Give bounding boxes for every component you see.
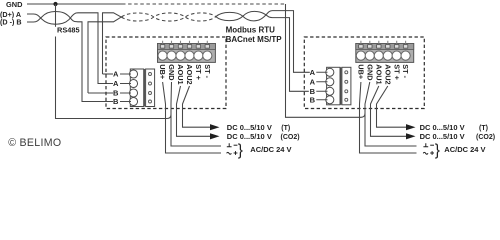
wire AOU1 to CO2 out right <box>371 86 407 136</box>
svg-text:AOU1: AOU1 <box>374 64 383 84</box>
svg-text:AOU2: AOU2 <box>383 64 392 84</box>
device 2 terminal block A A B B <box>316 67 351 105</box>
wire B out of device 1 <box>88 16 123 93</box>
svg-text:(T): (T) <box>479 125 488 132</box>
svg-text:(D -) B: (D -) B <box>0 18 22 27</box>
svg-text:DC 0...5/10 V: DC 0...5/10 V <box>227 132 272 141</box>
wire twisted pair solid lenses right upper <box>216 11 309 91</box>
svg-text:Modbus RTU: Modbus RTU <box>226 26 276 35</box>
svg-text:ST +: ST + <box>392 64 401 80</box>
svg-text:AOU2: AOU2 <box>185 64 194 84</box>
svg-text:GND: GND <box>365 64 374 80</box>
device 2 connector strip <box>356 41 414 63</box>
wire GND drop right device <box>286 4 366 117</box>
wire shield drop lower to GND rail <box>56 37 172 119</box>
wire GND to 24V <box>171 82 221 146</box>
svg-text:A: A <box>113 70 119 79</box>
svg-text:(T): (T) <box>281 125 290 132</box>
arrow CO2 right <box>406 133 416 139</box>
svg-text:B: B <box>310 95 316 104</box>
device 1 connector strip <box>158 41 216 63</box>
wire twisted pair solid lenses right lower <box>216 11 310 73</box>
wire AOU2 to T out <box>183 86 211 127</box>
svg-text:}: } <box>435 142 440 159</box>
svg-text:ST -: ST - <box>401 64 410 78</box>
svg-text:© BELIMO: © BELIMO <box>8 137 61 149</box>
wire GND bus solid <box>27 3 122 5</box>
svg-text:UB+: UB+ <box>357 64 366 79</box>
svg-text:B: B <box>113 97 119 106</box>
svg-text:RS485: RS485 <box>57 26 80 35</box>
symbol earth/minus right <box>423 143 434 155</box>
wire A1 stub <box>103 73 114 75</box>
svg-text:A: A <box>310 68 316 77</box>
svg-text:AC/DC 24 V: AC/DC 24 V <box>250 145 291 154</box>
svg-text:ST +: ST + <box>194 64 203 80</box>
wire B1 stub <box>88 92 113 94</box>
svg-text:DC 0...5/10 V: DC 0...5/10 V <box>227 123 272 132</box>
svg-text:(CO2): (CO2) <box>476 134 495 141</box>
svg-text:DC 0...5/10 V: DC 0...5/10 V <box>420 132 465 141</box>
svg-text:A: A <box>113 79 119 88</box>
device 1 terminal block A A B B <box>120 69 155 107</box>
wire AOU1 to CO2 out <box>177 86 211 136</box>
device 1 dashed box <box>106 37 226 109</box>
svg-text:ST -: ST - <box>203 64 212 78</box>
svg-text:DC 0...5/10 V: DC 0...5/10 V <box>420 123 465 132</box>
svg-text:GND: GND <box>6 0 23 9</box>
svg-text:}: } <box>238 142 243 159</box>
wire twisted pair B (left solid lens) <box>27 12 113 102</box>
svg-text:AC/DC 24 V: AC/DC 24 V <box>444 145 485 154</box>
wire UB+ to 24V right <box>360 82 417 153</box>
wire AOU2 to T out right <box>377 86 407 127</box>
wire twisted pair A (left solid lens) <box>27 13 113 84</box>
wire UB+ to 24V <box>163 82 221 153</box>
wire twisted pair dashed section lower <box>122 17 216 21</box>
svg-text:AOU1: AOU1 <box>176 64 185 84</box>
arrow T right <box>406 124 416 130</box>
svg-text:A: A <box>310 77 316 86</box>
wire twisted pair dashed section upper <box>122 13 216 17</box>
svg-text:GND: GND <box>167 64 176 80</box>
wire shield drop upper <box>55 4 57 27</box>
device 1 pin labels <box>158 64 212 84</box>
device 2 dashed box <box>304 37 424 109</box>
svg-text:BACnet MS/TP: BACnet MS/TP <box>226 35 283 44</box>
node junction dot <box>53 2 57 6</box>
svg-text:(CO2): (CO2) <box>281 134 300 141</box>
device 2 pin labels <box>357 64 411 84</box>
wire GND bus dashed <box>122 3 286 5</box>
wire A out of device 1 <box>103 13 123 74</box>
arrow CO2 left <box>210 133 220 139</box>
svg-text:UB+: UB+ <box>158 64 167 79</box>
wire GND to 24V right <box>365 82 417 146</box>
symbol earth/minus left <box>227 143 238 155</box>
arrow T left <box>210 124 220 130</box>
